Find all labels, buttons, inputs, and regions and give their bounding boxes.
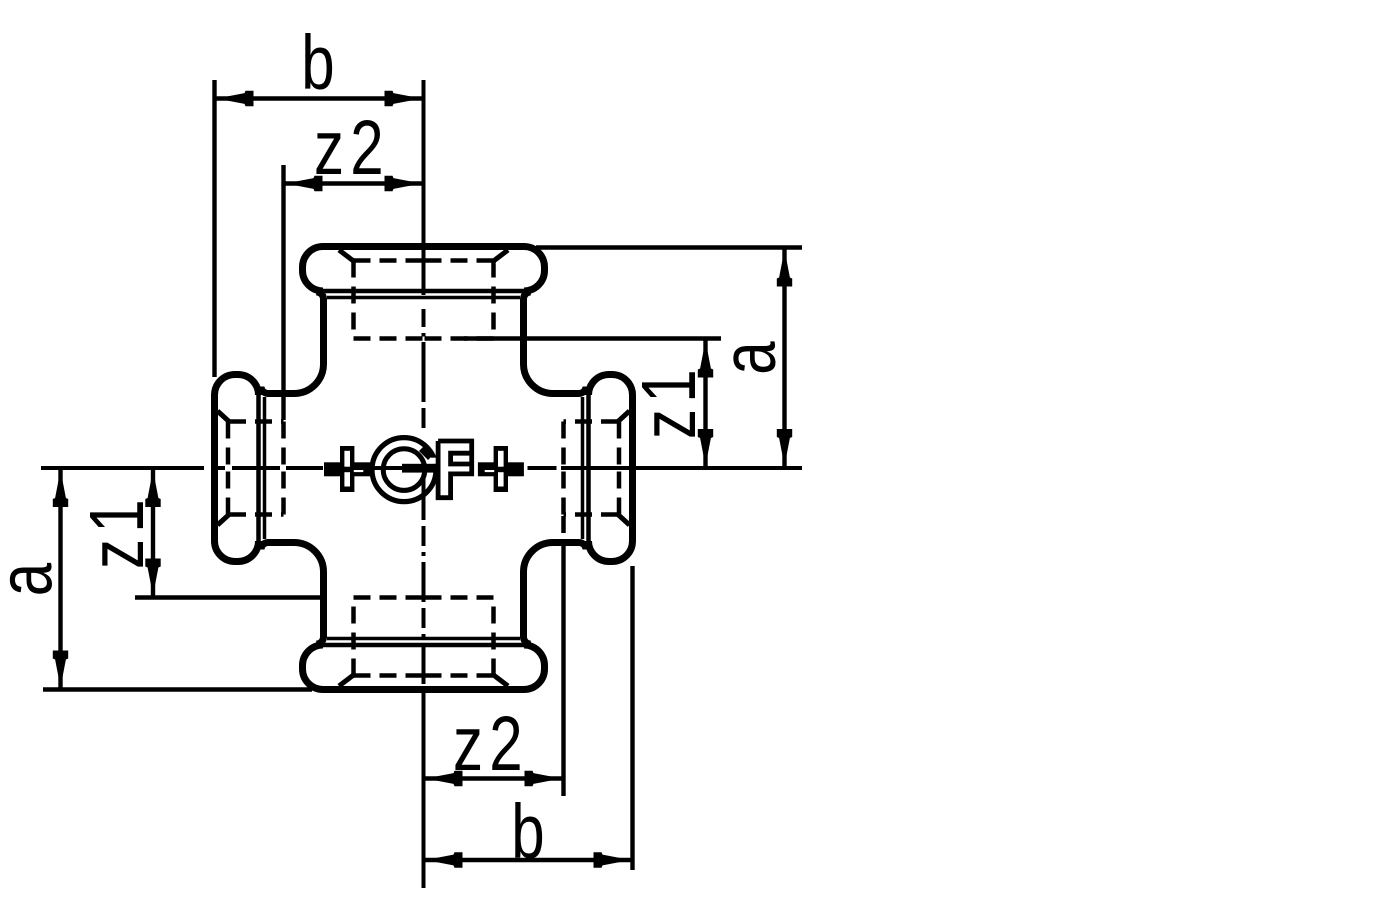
svg-text:a: a xyxy=(705,341,792,375)
G beak xyxy=(422,449,431,458)
vertical centerline (solid upper part, also extension for b/z2) xyxy=(422,80,426,428)
arrow z1 right down xyxy=(698,429,713,466)
dimension line b top xyxy=(215,96,424,100)
extension line b bottom (right face) xyxy=(630,566,634,870)
vertical centerline lower segments xyxy=(422,474,426,684)
fitting body bottom-left quadrant xyxy=(215,468,424,690)
arrow z1 left up xyxy=(145,470,160,507)
arrow b bottom left xyxy=(426,852,463,867)
arrow z2 top left xyxy=(286,176,323,191)
horizontal centerline right segments xyxy=(528,466,803,470)
fitting body top-left quadrant xyxy=(215,247,424,469)
horizontal centerline left segments xyxy=(41,466,323,470)
dimension line z1 left xyxy=(151,468,155,598)
dimension line z1 right xyxy=(703,339,707,469)
G crossbar xyxy=(402,464,436,473)
arrow z1 right up xyxy=(698,341,713,378)
arrow a left down xyxy=(53,651,68,688)
fitting body bottom-right quadrant xyxy=(424,468,633,690)
arrow z2 bottom right xyxy=(525,771,562,786)
extension line b top (left face) xyxy=(212,80,216,377)
arrow b top left xyxy=(217,91,254,106)
arrow b top right xyxy=(385,91,422,106)
G outer ring xyxy=(372,438,436,502)
vertical centerline (solid lower part, extension for bottom z2/b) xyxy=(422,690,426,888)
extension line z1 left (bottom thread depth) xyxy=(135,595,327,599)
svg-text:z2: z2 xyxy=(314,104,390,191)
dimension line z2 bottom xyxy=(424,776,564,780)
thread depth dash continuation right socket xyxy=(561,516,566,544)
svg-text:z1: z1 xyxy=(73,493,160,569)
arrow a right up xyxy=(777,250,792,287)
left cross xyxy=(340,446,354,492)
arrow z2 bottom left xyxy=(426,771,463,786)
right cross xyxy=(494,446,508,492)
extension line z2 bottom (right thread depth) xyxy=(561,545,565,796)
G aperture xyxy=(427,458,441,464)
svg-text:b: b xyxy=(301,19,334,106)
extension line a right (top face) xyxy=(536,245,802,249)
fitting body top-right quadrant xyxy=(424,247,633,469)
logo +GF+ xyxy=(324,438,524,502)
svg-text:b: b xyxy=(511,788,544,875)
extension line z1 right (top thread depth) xyxy=(464,336,721,340)
extension line z2 top (left thread depth) xyxy=(281,165,285,420)
arrow a left up xyxy=(53,470,68,507)
dimension line z2 top xyxy=(284,181,424,185)
centerline visible through logo white areas xyxy=(352,466,496,470)
arrow b bottom right xyxy=(594,852,631,867)
extension line a left (bottom face) xyxy=(43,687,312,691)
F letter xyxy=(438,441,472,498)
dimension line a left xyxy=(58,468,62,690)
dimension line b bottom xyxy=(424,858,633,862)
svg-text:z1: z1 xyxy=(625,363,712,439)
arrow a right down xyxy=(777,429,792,466)
svg-text:z2: z2 xyxy=(453,700,529,787)
dimension line a right xyxy=(782,248,786,469)
arrow z1 left down xyxy=(145,559,160,596)
arrow z2 top right xyxy=(385,176,422,191)
svg-text:a: a xyxy=(0,562,68,596)
G inner ring xyxy=(383,449,425,491)
